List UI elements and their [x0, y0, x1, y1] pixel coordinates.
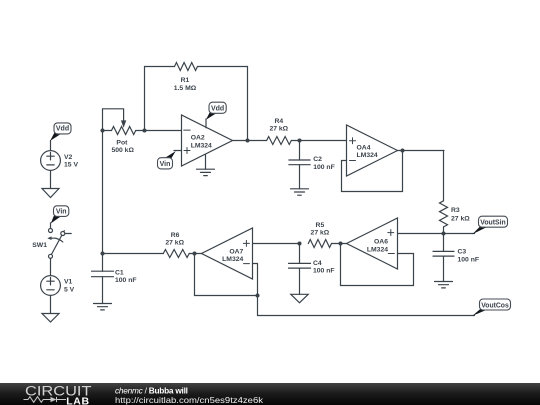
- svg-text:OA2: OA2: [191, 134, 205, 141]
- svg-text:100 nF: 100 nF: [115, 277, 137, 284]
- svg-text:R1: R1: [181, 77, 190, 84]
- svg-text:27 kΩ: 27 kΩ: [269, 126, 288, 133]
- svg-text:27 kΩ: 27 kΩ: [311, 230, 330, 237]
- svg-text:http://circuitlab.com/cn5es9tz: http://circuitlab.com/cn5es9tz4ze6k: [115, 395, 264, 405]
- svg-text:R3: R3: [451, 207, 460, 214]
- svg-text:SW1: SW1: [32, 242, 47, 249]
- svg-text:OA4: OA4: [357, 145, 371, 152]
- svg-text:LAB: LAB: [66, 395, 89, 405]
- svg-text:100 nF: 100 nF: [313, 267, 335, 274]
- svg-text:VoutSin: VoutSin: [480, 220, 506, 227]
- svg-text:LM324: LM324: [357, 152, 378, 159]
- svg-text:5 V: 5 V: [64, 286, 75, 293]
- svg-text:LM324: LM324: [367, 246, 388, 253]
- svg-text:R5: R5: [316, 222, 325, 229]
- svg-text:OA6: OA6: [374, 239, 388, 246]
- svg-text:C3: C3: [458, 249, 467, 256]
- svg-text:R6: R6: [171, 232, 180, 239]
- svg-text:Vdd: Vdd: [56, 126, 69, 133]
- svg-text:27 kΩ: 27 kΩ: [451, 216, 470, 223]
- svg-text:1.5 MΩ: 1.5 MΩ: [174, 85, 197, 92]
- svg-text:500 kΩ: 500 kΩ: [111, 147, 134, 154]
- svg-text:C4: C4: [313, 260, 322, 267]
- svg-text:OA7: OA7: [229, 248, 243, 255]
- svg-text:Vin: Vin: [160, 161, 171, 168]
- svg-text:100 nF: 100 nF: [458, 256, 480, 263]
- svg-text:Pot: Pot: [116, 140, 128, 147]
- svg-text:R4: R4: [274, 118, 283, 125]
- svg-text:LM324: LM324: [222, 256, 243, 263]
- svg-text:C1: C1: [115, 269, 124, 276]
- svg-text:Vdd: Vdd: [211, 105, 224, 112]
- svg-text:VoutCos: VoutCos: [481, 302, 509, 309]
- svg-text:100 nF: 100 nF: [313, 164, 335, 171]
- svg-text:27 kΩ: 27 kΩ: [165, 240, 184, 247]
- svg-text:LM324: LM324: [191, 142, 212, 149]
- svg-text:C2: C2: [313, 156, 322, 163]
- svg-text:15 V: 15 V: [64, 161, 78, 168]
- svg-text:Vin: Vin: [56, 209, 67, 216]
- svg-text:V1: V1: [64, 279, 73, 286]
- svg-text:V2: V2: [64, 154, 73, 161]
